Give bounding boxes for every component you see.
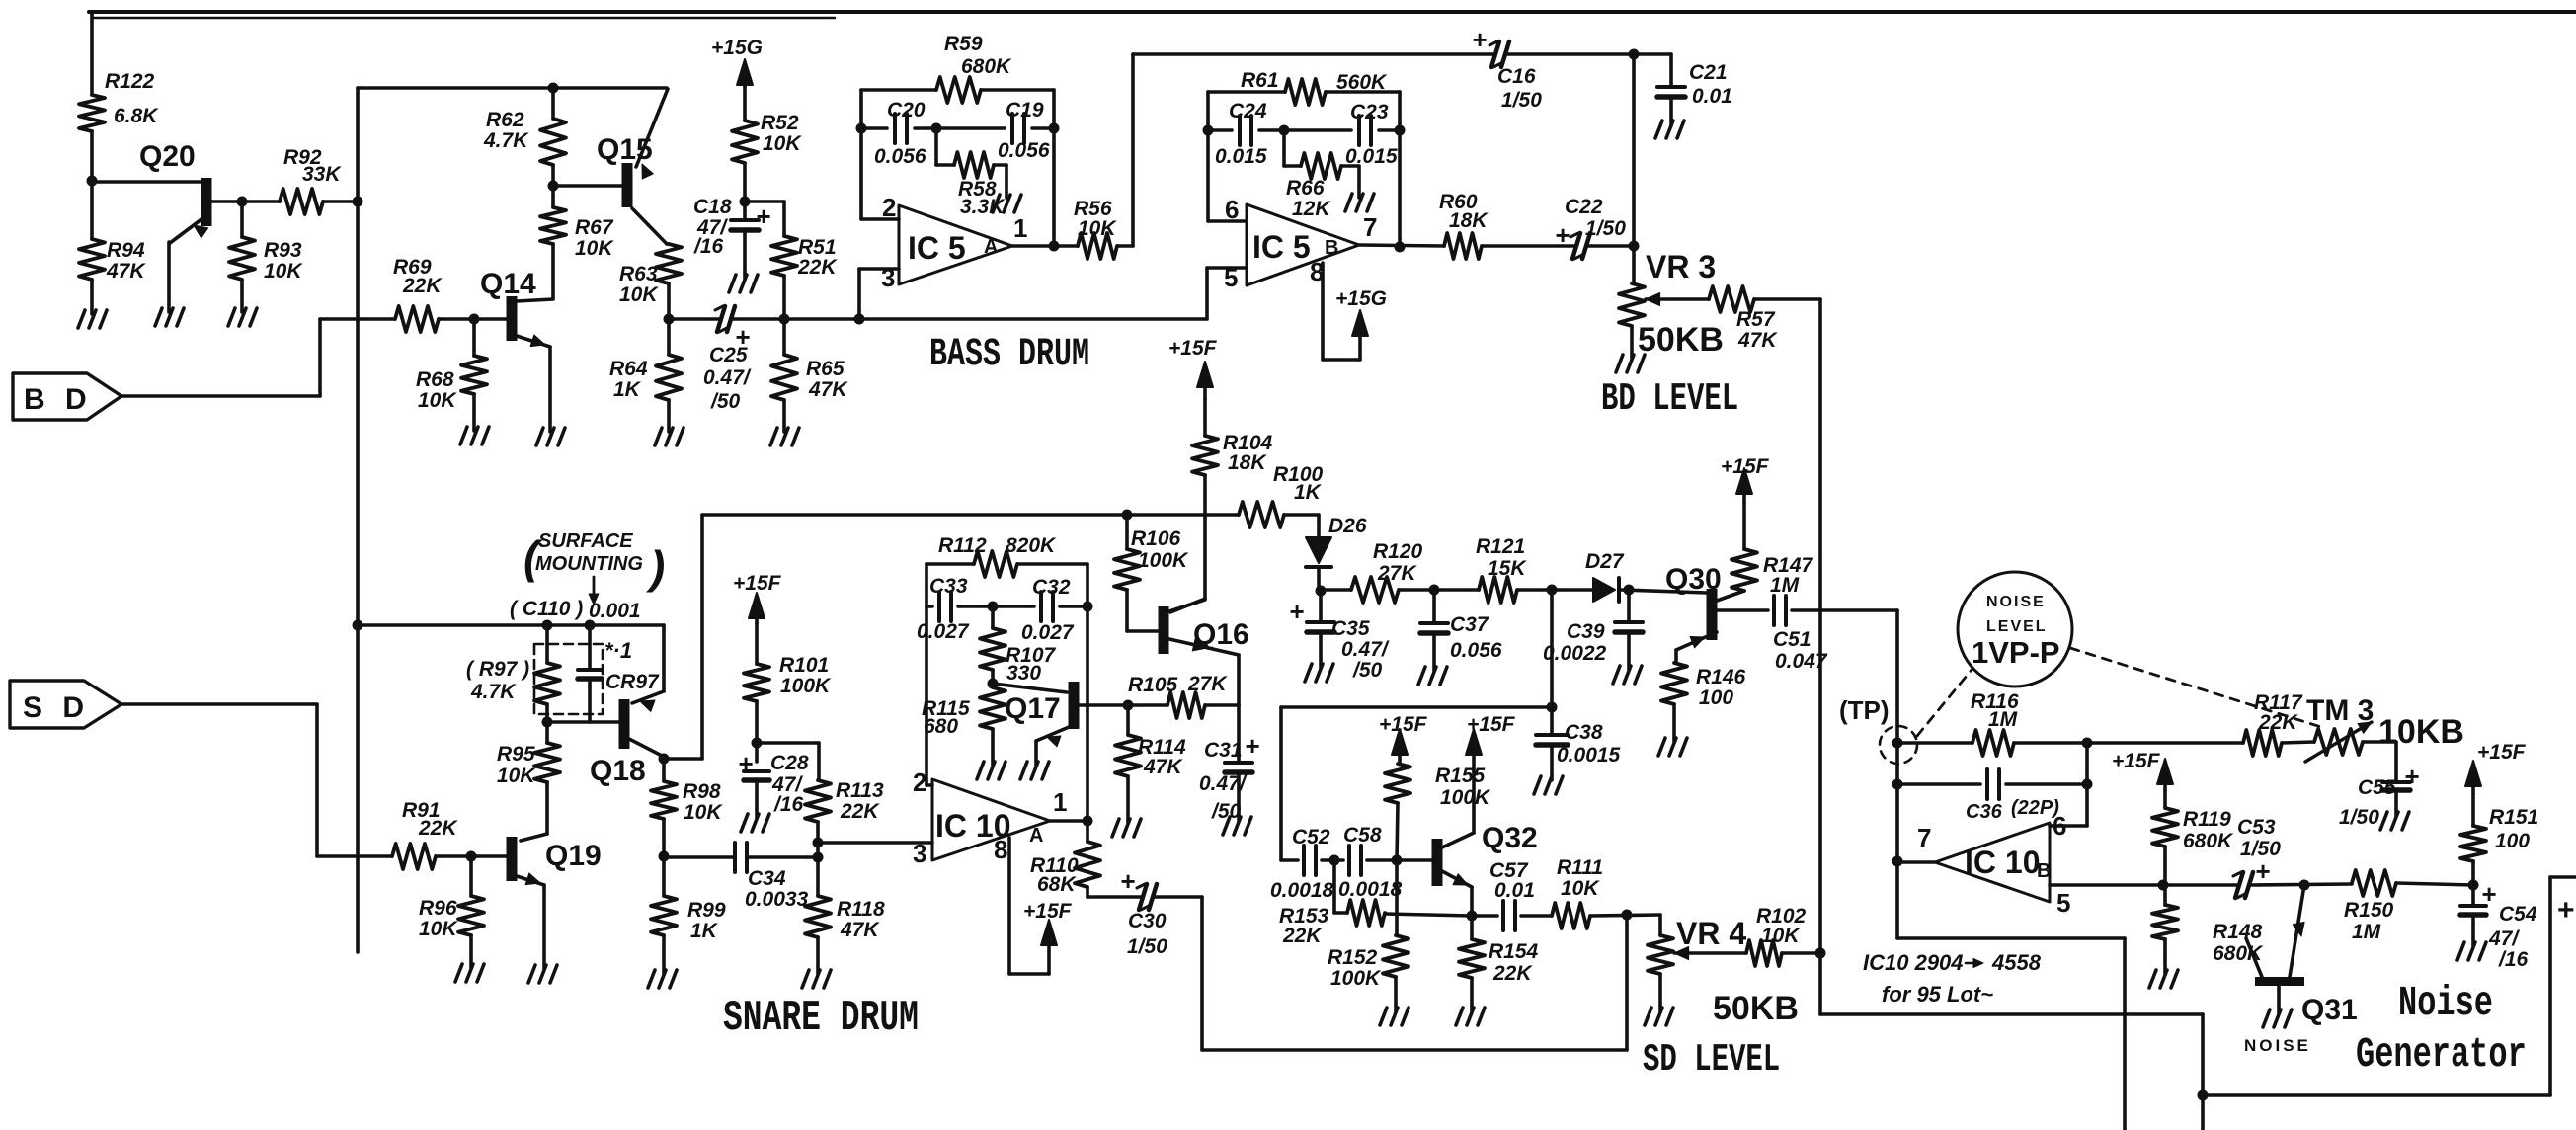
svg-text:( R97 ): ( R97 ) <box>466 658 529 681</box>
svg-text:C23: C23 <box>1350 101 1389 123</box>
svg-text:R66: R66 <box>1286 177 1325 200</box>
svg-text:330: 330 <box>1006 662 1041 685</box>
svg-text:/16: /16 <box>773 793 804 816</box>
svg-text:Q15: Q15 <box>597 133 653 166</box>
svg-text:10K: 10K <box>575 237 614 260</box>
svg-text:47K: 47K <box>106 260 146 282</box>
svg-text:TM 3: TM 3 <box>2306 694 2374 727</box>
svg-text:0.001: 0.001 <box>589 600 641 622</box>
svg-text:680: 680 <box>924 715 958 738</box>
svg-text:R99: R99 <box>687 899 726 922</box>
svg-text:/16: /16 <box>2498 948 2529 971</box>
svg-text:R101: R101 <box>779 654 829 677</box>
svg-text:NOISE: NOISE <box>1986 594 2046 610</box>
svg-text:1K: 1K <box>1294 481 1323 504</box>
svg-text:R59: R59 <box>944 33 983 55</box>
svg-text:Noise: Noise <box>2398 981 2493 1027</box>
svg-text:1/50: 1/50 <box>1501 89 1542 112</box>
svg-text:4.7K: 4.7K <box>470 681 517 703</box>
svg-text:22K: 22K <box>418 817 458 840</box>
svg-text:C51: C51 <box>1773 628 1811 651</box>
svg-text:10K: 10K <box>1761 925 1801 947</box>
svg-text:0.047: 0.047 <box>1775 650 1828 673</box>
svg-text:0.47/: 0.47/ <box>1199 772 1248 795</box>
svg-text:C20: C20 <box>887 99 926 121</box>
svg-text:22K: 22K <box>840 800 880 823</box>
svg-text:1/50: 1/50 <box>1127 935 1167 958</box>
svg-text:R152: R152 <box>1328 946 1378 969</box>
svg-text:47K: 47K <box>1143 756 1183 778</box>
svg-text:15K: 15K <box>1488 557 1527 580</box>
svg-text:Q16: Q16 <box>1193 618 1249 651</box>
svg-text:R106: R106 <box>1131 527 1181 550</box>
svg-text:0.015: 0.015 <box>1345 145 1398 168</box>
svg-text:BASS DRUM: BASS DRUM <box>929 332 1089 376</box>
svg-text:0.056: 0.056 <box>1450 639 1502 662</box>
svg-text:C54: C54 <box>2499 903 2537 926</box>
svg-text:R67: R67 <box>575 216 614 239</box>
svg-text:0.027: 0.027 <box>1021 621 1075 644</box>
svg-text:C19: C19 <box>1006 99 1044 121</box>
svg-text:100K: 100K <box>1330 967 1382 990</box>
svg-text:C35: C35 <box>1331 617 1370 640</box>
svg-text:560K: 560K <box>1336 71 1388 94</box>
svg-text:D27: D27 <box>1585 550 1625 573</box>
svg-text:C16: C16 <box>1497 65 1536 88</box>
svg-text:Q19: Q19 <box>545 840 602 872</box>
svg-text:100K: 100K <box>1440 786 1491 809</box>
svg-text:R65: R65 <box>806 358 845 380</box>
svg-text:0.0022: 0.0022 <box>1543 642 1607 665</box>
svg-text:680K: 680K <box>961 55 1012 78</box>
svg-text:R57: R57 <box>1736 308 1776 331</box>
svg-text:Q31: Q31 <box>2301 994 2358 1026</box>
svg-text:Q14: Q14 <box>480 268 536 300</box>
svg-text:R62: R62 <box>486 109 524 131</box>
svg-text:6: 6 <box>2053 811 2066 841</box>
svg-text:0.056: 0.056 <box>998 139 1050 162</box>
svg-text:VR 3: VR 3 <box>1646 249 1716 284</box>
svg-text:R64: R64 <box>609 358 648 380</box>
svg-text:C38: C38 <box>1565 721 1603 744</box>
svg-text:22K: 22K <box>1282 925 1323 947</box>
svg-text:27K: 27K <box>1377 562 1417 585</box>
svg-text:680K: 680K <box>2183 830 2234 852</box>
svg-text:R122: R122 <box>105 70 155 93</box>
svg-text:5: 5 <box>2056 888 2070 918</box>
svg-text:+15F: +15F <box>1023 900 1073 923</box>
svg-text:+: + <box>1555 220 1570 250</box>
svg-text:C22: C22 <box>1565 196 1603 218</box>
svg-text:0.0018: 0.0018 <box>1338 878 1403 901</box>
svg-text:0.056: 0.056 <box>874 145 926 168</box>
svg-text:+: + <box>735 322 750 352</box>
svg-text:IC 10: IC 10 <box>1965 845 2040 880</box>
svg-text:A: A <box>984 236 998 258</box>
svg-text:C53: C53 <box>2237 816 2276 839</box>
svg-text:10K: 10K <box>418 389 457 412</box>
svg-text:+15G: +15G <box>711 37 763 59</box>
svg-text:R151: R151 <box>2489 806 2538 829</box>
svg-text:1: 1 <box>1013 213 1027 243</box>
svg-text:R52: R52 <box>761 112 799 134</box>
svg-text:C36: C36 <box>1966 801 2003 823</box>
svg-text:+15F: +15F <box>1721 455 1770 478</box>
svg-text:A: A <box>1029 825 1043 847</box>
svg-text:22K: 22K <box>2258 711 2298 734</box>
svg-text:Q20: Q20 <box>139 140 196 173</box>
svg-text:5: 5 <box>1224 263 1238 292</box>
svg-text:R94: R94 <box>107 239 145 262</box>
svg-text:1/50: 1/50 <box>1585 217 1626 240</box>
svg-text:+15F: +15F <box>2112 750 2161 772</box>
svg-text:for 95 Lot~: for 95 Lot~ <box>1882 982 1993 1007</box>
svg-text:/50: /50 <box>1352 659 1383 682</box>
svg-text:MOUNTING: MOUNTING <box>535 553 643 575</box>
svg-text:IC10 2904: IC10 2904 <box>1863 950 1964 975</box>
svg-text:10KB: 10KB <box>2378 713 2464 751</box>
svg-text:47K: 47K <box>808 378 848 401</box>
svg-text:R118: R118 <box>837 898 885 921</box>
svg-text:R93: R93 <box>264 239 302 262</box>
svg-text:100K: 100K <box>1138 549 1189 572</box>
svg-text:R96: R96 <box>419 897 457 920</box>
svg-text:1/50: 1/50 <box>2339 806 2379 829</box>
svg-text:0.0033: 0.0033 <box>745 888 809 911</box>
svg-text:10K: 10K <box>264 260 303 282</box>
svg-text:BD LEVEL: BD LEVEL <box>1601 378 1738 421</box>
svg-text:820K: 820K <box>1006 534 1057 557</box>
svg-text:R154: R154 <box>1489 940 1539 963</box>
svg-text:Q32: Q32 <box>1482 822 1538 854</box>
svg-text:0.015: 0.015 <box>1215 145 1267 168</box>
svg-text:C28: C28 <box>770 752 809 774</box>
svg-text:2: 2 <box>882 193 896 222</box>
svg-text:+: + <box>2255 856 2270 886</box>
svg-text:68K: 68K <box>1037 873 1077 896</box>
svg-text:10K: 10K <box>1561 877 1600 900</box>
svg-text:7: 7 <box>1363 212 1377 242</box>
svg-text:+: + <box>1289 597 1304 626</box>
svg-text:D26: D26 <box>1328 515 1367 537</box>
svg-text:R121: R121 <box>1476 535 1525 558</box>
svg-text:18K: 18K <box>1449 209 1489 232</box>
svg-text:0.01: 0.01 <box>1494 879 1535 902</box>
svg-text:1K: 1K <box>613 378 642 401</box>
svg-text:22K: 22K <box>1492 962 1533 985</box>
svg-text:680K: 680K <box>2213 942 2264 965</box>
svg-text:Q30: Q30 <box>1665 563 1722 596</box>
svg-text:+: + <box>2481 879 2496 909</box>
svg-text:( C110 ): ( C110 ) <box>510 598 583 620</box>
svg-text:R95: R95 <box>497 743 535 766</box>
svg-text:SURFACE: SURFACE <box>538 530 633 552</box>
svg-text:3.3K: 3.3K <box>960 196 1006 218</box>
svg-text:Q18: Q18 <box>590 755 646 787</box>
svg-text:B: B <box>1325 237 1338 259</box>
svg-text:C55: C55 <box>2358 776 2396 799</box>
svg-text:R119: R119 <box>2183 808 2231 831</box>
svg-text:10K: 10K <box>763 132 802 155</box>
svg-text:C31: C31 <box>1204 739 1243 762</box>
svg-text:R150: R150 <box>2344 899 2394 922</box>
svg-text:7: 7 <box>1917 823 1931 852</box>
svg-text:B: B <box>2037 860 2051 882</box>
svg-text:Q17: Q17 <box>1005 692 1061 725</box>
svg-text:VR 4: VR 4 <box>1676 916 1746 951</box>
svg-text:C37: C37 <box>1450 613 1489 636</box>
svg-text:100: 100 <box>1699 686 1733 709</box>
svg-text:/50: /50 <box>710 390 741 413</box>
svg-text:10K: 10K <box>684 801 723 824</box>
svg-text:R148: R148 <box>2213 921 2263 943</box>
svg-text:1M: 1M <box>2352 921 2381 943</box>
svg-text:R120: R120 <box>1373 540 1423 563</box>
svg-text:0.47/: 0.47/ <box>703 366 752 389</box>
svg-text:18K: 18K <box>1228 451 1267 474</box>
svg-text:SD LEVEL: SD LEVEL <box>1643 1039 1780 1082</box>
svg-text:/50: /50 <box>1211 800 1242 823</box>
svg-text:10K: 10K <box>619 283 659 306</box>
svg-text:22K: 22K <box>797 256 838 279</box>
svg-text:8: 8 <box>1310 257 1324 286</box>
svg-text:R112: R112 <box>938 534 987 557</box>
svg-text:+: + <box>2404 762 2419 791</box>
svg-text:1K: 1K <box>690 920 719 942</box>
svg-text:0.027: 0.027 <box>917 620 970 643</box>
svg-text:27K: 27K <box>1187 673 1228 695</box>
svg-text:100K: 100K <box>780 675 832 697</box>
svg-text:C33: C33 <box>929 575 968 598</box>
svg-text:0.0018: 0.0018 <box>1270 879 1334 902</box>
svg-text:CR97: CR97 <box>605 671 660 693</box>
svg-text:1M: 1M <box>1770 574 1800 597</box>
svg-text:R155: R155 <box>1435 765 1486 787</box>
svg-text:4.7K: 4.7K <box>483 129 529 152</box>
svg-text:C18: C18 <box>693 196 732 218</box>
svg-text:+: + <box>738 749 753 778</box>
svg-text:1: 1 <box>1053 787 1067 817</box>
svg-text:(TP): (TP) <box>1839 695 1890 725</box>
svg-text:+15G: +15G <box>1335 287 1387 310</box>
svg-text:LEVEL: LEVEL <box>1986 618 2048 635</box>
svg-text:+: + <box>1120 866 1135 896</box>
svg-text:S D: S D <box>23 691 90 724</box>
svg-text:50KB: 50KB <box>1638 321 1724 359</box>
svg-text:+15F: +15F <box>2477 741 2527 764</box>
svg-text:+15F: +15F <box>1379 713 1428 736</box>
svg-text:*·1: *·1 <box>604 638 632 663</box>
svg-text:C30: C30 <box>1128 910 1167 932</box>
svg-text:0.01: 0.01 <box>1692 85 1732 108</box>
svg-text:R146: R146 <box>1696 666 1746 688</box>
svg-text:R63: R63 <box>619 263 658 285</box>
svg-text:+: + <box>1245 731 1259 761</box>
svg-text:+15F: +15F <box>1467 713 1516 736</box>
svg-text:12K: 12K <box>1292 198 1331 220</box>
svg-text:3: 3 <box>881 263 895 292</box>
svg-text:10K: 10K <box>497 765 536 787</box>
svg-text:+: + <box>756 202 770 231</box>
svg-text:47/: 47/ <box>2488 928 2520 950</box>
svg-text:47K: 47K <box>840 919 880 941</box>
svg-text:50KB: 50KB <box>1713 990 1799 1027</box>
svg-text:100: 100 <box>2495 830 2530 852</box>
svg-text:10K: 10K <box>419 918 458 940</box>
svg-text:NOISE: NOISE <box>2244 1036 2311 1055</box>
svg-text:C34: C34 <box>748 867 786 890</box>
svg-text:1VP-P: 1VP-P <box>1972 635 2060 670</box>
svg-text:C39: C39 <box>1567 620 1605 643</box>
svg-text:C32: C32 <box>1032 576 1071 599</box>
svg-text:0.0015: 0.0015 <box>1557 744 1621 767</box>
svg-text:1M: 1M <box>1988 708 2018 731</box>
svg-text:3: 3 <box>913 839 926 868</box>
svg-text:C21: C21 <box>1689 61 1728 84</box>
svg-text:R68: R68 <box>416 368 454 391</box>
svg-text:/16: /16 <box>693 235 724 258</box>
svg-text:+: + <box>2557 894 2575 927</box>
svg-text:R98: R98 <box>683 780 721 803</box>
svg-text:Generator: Generator <box>2356 1032 2527 1079</box>
svg-text:+15F: +15F <box>1168 337 1218 360</box>
svg-text:C52: C52 <box>1292 826 1330 848</box>
svg-text:R113: R113 <box>836 779 884 802</box>
svg-text:0.47/: 0.47/ <box>1341 638 1390 661</box>
svg-text:C58: C58 <box>1343 824 1382 847</box>
svg-text:47K: 47K <box>1737 329 1778 352</box>
svg-text:+15F: +15F <box>733 572 782 595</box>
svg-text:B D: B D <box>24 383 93 416</box>
svg-text:33K: 33K <box>302 163 342 186</box>
svg-text:6: 6 <box>1225 195 1239 224</box>
svg-text:6.8K: 6.8K <box>114 105 159 127</box>
svg-text:+: + <box>1472 25 1487 54</box>
svg-text:SNARE DRUM: SNARE DRUM <box>723 994 919 1043</box>
svg-text:2: 2 <box>913 767 926 797</box>
svg-text:4558: 4558 <box>1991 950 2042 975</box>
svg-text:R111: R111 <box>1557 856 1603 879</box>
svg-text:IC 5: IC 5 <box>1252 229 1311 265</box>
svg-text:22K: 22K <box>402 275 443 297</box>
svg-text:R61: R61 <box>1241 69 1279 92</box>
svg-text:R105: R105 <box>1128 674 1178 696</box>
svg-text:10K: 10K <box>1078 217 1117 240</box>
svg-text:IC 5: IC 5 <box>908 230 966 266</box>
svg-text:8: 8 <box>994 835 1007 864</box>
svg-text:C24: C24 <box>1229 100 1267 122</box>
